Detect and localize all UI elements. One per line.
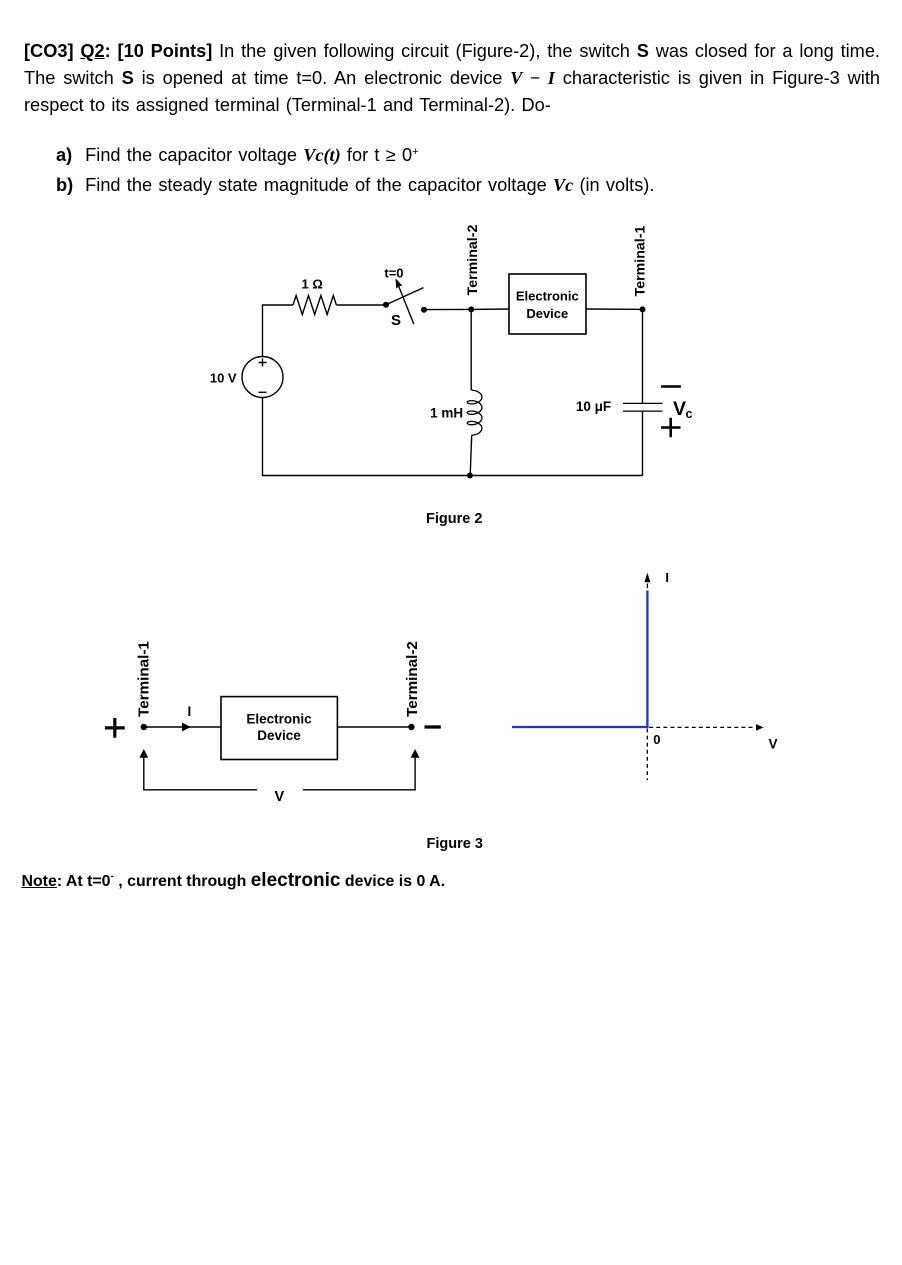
svg-text:10 V: 10 V	[210, 370, 237, 385]
svg-text:Terminal-1: Terminal-1	[135, 641, 152, 717]
svg-text:Device: Device	[526, 306, 568, 321]
svg-text:t=0: t=0	[384, 266, 403, 281]
svg-text:1 mH: 1 mH	[430, 405, 463, 420]
svg-text:V: V	[673, 398, 686, 420]
svg-text:V: V	[275, 789, 285, 805]
svg-text:I: I	[188, 704, 192, 719]
svg-text:Terminal-2: Terminal-2	[404, 641, 421, 717]
svg-text:Terminal-2: Terminal-2	[465, 225, 481, 296]
svg-text:S: S	[391, 312, 401, 329]
svg-text:Terminal-1: Terminal-1	[632, 226, 648, 297]
svg-text:Electronic: Electronic	[516, 289, 579, 304]
svg-text:Device: Device	[257, 728, 301, 743]
svg-text:V: V	[769, 736, 778, 751]
svg-text:I: I	[665, 570, 669, 585]
svg-text:c: c	[686, 407, 693, 421]
svg-text:Electronic: Electronic	[246, 712, 312, 727]
svg-text:0: 0	[653, 732, 660, 747]
svg-text:10 μF: 10 μF	[576, 399, 611, 414]
svg-text:1 Ω: 1 Ω	[302, 277, 323, 292]
